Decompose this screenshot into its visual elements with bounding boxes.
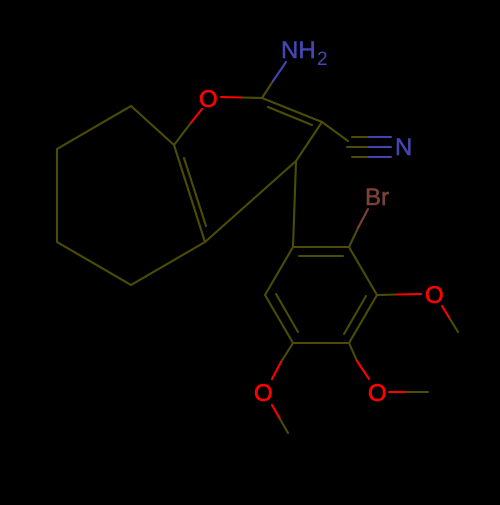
wire C5'-C6' double: [265, 295, 293, 343]
wire O-CH3 (bottom-right methoxy): [389, 391, 407, 393]
wire C4-C1': [293, 161, 296, 247]
wire C5-C6: [57, 242, 131, 285]
wire C3'-C4' double: [349, 295, 377, 343]
wire C8a=C4a double bond: [174, 145, 205, 242]
nitrile triple bond C#N: [352, 136, 369, 138]
wire O-CH3 (right methoxy): [442, 306, 450, 319]
svg-text:O: O: [199, 86, 218, 113]
wire O1-C2 (red half near O): [221, 96, 242, 99]
svg-text:2: 2: [317, 49, 328, 70]
svg-text:NH: NH: [281, 37, 316, 64]
svg-text:O: O: [368, 380, 387, 407]
wire O-CH3 (bottom-left methoxy): [272, 405, 280, 419]
wire C3-C4: [296, 122, 322, 161]
svg-text:Br: Br: [365, 184, 389, 211]
wire C8-C8a: [131, 106, 174, 145]
svg-text:O: O: [254, 380, 273, 407]
wire C2'-C3': [349, 247, 377, 295]
wire C4'-C5': [293, 342, 349, 344]
wire C3'-O (red half near O): [377, 293, 397, 296]
wire C2'-Br (brown half near Br): [349, 228, 358, 247]
wire C4-C4a: [205, 161, 296, 242]
nitrile C3-C: [322, 122, 348, 141]
wire C4a-C5: [131, 242, 205, 285]
wire O1-C8a (red half near O): [190, 109, 202, 124]
wire C2-N(H2) (blue half near N): [262, 81, 273, 98]
svg-text:O: O: [425, 282, 444, 309]
wire C7-C8: [57, 106, 131, 149]
wire C6'-C1': [265, 247, 293, 295]
wire C6-C7: [56, 149, 58, 242]
svg-text:N: N: [395, 134, 412, 161]
wire C4'-O (red half near O): [349, 343, 357, 361]
wire C1'-C2' top edge double: [293, 246, 349, 248]
wire C5'-O (red half near O): [281, 343, 293, 362]
wire C2=C3 double bond: [262, 98, 322, 122]
